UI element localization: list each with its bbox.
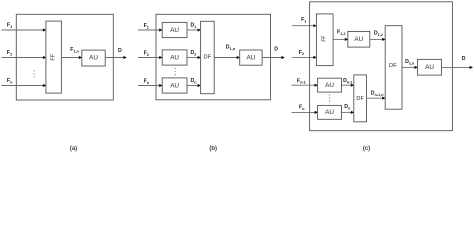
- svg-text:AU: AU: [354, 36, 363, 43]
- wire small DF to big DF (c): [367, 97, 386, 100]
- svg-text:(a): (a): [70, 146, 77, 152]
- analysis unit AU2 (b): [162, 50, 187, 65]
- svg-text:F2: F2: [144, 50, 149, 56]
- fusion analysis unit AU (b): [240, 50, 262, 65]
- svg-text:FF: FF: [51, 53, 57, 61]
- svg-text:D: D: [462, 56, 466, 62]
- final analysis unit AU (c): [418, 59, 442, 75]
- svg-text:AU: AU: [325, 82, 334, 89]
- wire input F2 into FF (a): [2, 56, 47, 59]
- analysis unit AU1 bottom (c): [318, 78, 342, 92]
- svg-text:D1,n: D1,n: [226, 45, 236, 51]
- feature fusion block FF (c): [316, 14, 333, 66]
- svg-text:F1: F1: [7, 23, 12, 29]
- outer system box (c): [310, 2, 453, 131]
- svg-text:D1,n: D1,n: [405, 59, 415, 65]
- svg-text:FF: FF: [322, 36, 328, 42]
- svg-text:Dn: Dn: [344, 104, 351, 110]
- decision fusion block big DF (c): [385, 26, 402, 110]
- svg-text:AU: AU: [170, 82, 179, 89]
- svg-text:Dn-1: Dn-1: [343, 78, 352, 84]
- svg-text:F1,2: F1,2: [337, 30, 345, 36]
- svg-text:F2: F2: [299, 50, 304, 56]
- wire input Fn into FF (a): [2, 84, 47, 87]
- wire input F2 into FF (c): [292, 56, 317, 59]
- wire AU top to big DF (c): [370, 38, 386, 41]
- analysis unit AU3 (b): [162, 78, 187, 93]
- vertical ellipsis between AU2 and AU3 (b): [175, 68, 176, 76]
- outer system box (a): [16, 14, 113, 100]
- svg-text:D2: D2: [191, 50, 197, 56]
- wire DF to AU (b): [214, 56, 240, 59]
- svg-text:AU: AU: [425, 64, 434, 71]
- analysis unit AU2 bottom (c): [318, 105, 342, 119]
- vertical ellipsis between bottom AUs (c): [329, 94, 330, 102]
- svg-text:D1: D1: [191, 23, 197, 29]
- analysis unit AU1 (b): [162, 22, 187, 37]
- svg-text:D: D: [118, 48, 122, 54]
- svg-text:F1,n: F1,n: [70, 47, 79, 53]
- svg-text:(b): (b): [209, 146, 217, 152]
- wire output D (b): [262, 56, 285, 59]
- svg-text:Dn: Dn: [191, 78, 198, 84]
- svg-text:AU: AU: [246, 55, 255, 62]
- svg-text:D: D: [274, 46, 278, 52]
- wire output D (c): [442, 66, 474, 69]
- analysis unit AU (a): [82, 50, 105, 66]
- decision fusion block small DF (c): [354, 75, 367, 122]
- wire input Fn into AU2 (c): [292, 111, 319, 114]
- svg-text:(c): (c): [363, 146, 370, 152]
- wire input Fn-1 into AU1 (c): [292, 84, 319, 87]
- svg-text:Fn: Fn: [7, 78, 13, 84]
- svg-text:Fn-1: Fn-1: [297, 78, 306, 84]
- svg-text:F1: F1: [301, 17, 306, 23]
- wire input F1 into FF (a): [2, 28, 47, 31]
- svg-text:AU: AU: [170, 27, 179, 34]
- analysis unit AU top (c): [348, 32, 370, 48]
- wire output D (a): [105, 56, 127, 59]
- wire input F1 into AU1 (b): [138, 28, 163, 31]
- wire FF to AU (a): [61, 56, 82, 59]
- wire AU3 to DF (b): [187, 84, 201, 87]
- wire big DF to AU (c): [402, 66, 418, 69]
- decision fusion block DF (b): [201, 21, 215, 93]
- vertical ellipsis between F2 and Fn (a): [34, 70, 35, 78]
- wire AU1 to DF (b): [187, 28, 201, 31]
- feature fusion block FF (a): [46, 21, 62, 93]
- wire input F2 into AU2 (b): [138, 56, 163, 59]
- svg-text:DF: DF: [356, 96, 364, 102]
- wire AU2 to small DF (c): [342, 111, 355, 114]
- wire input F1 into FF (c): [292, 24, 317, 27]
- svg-text:Fn: Fn: [144, 78, 150, 84]
- svg-text:F1: F1: [144, 23, 149, 29]
- svg-text:DF: DF: [204, 55, 212, 61]
- svg-text:AU: AU: [325, 109, 334, 116]
- wire input Fn into AU3 (b): [138, 84, 163, 87]
- wire AU2 to DF (b): [187, 56, 201, 59]
- svg-text:AU: AU: [89, 55, 98, 62]
- wire FF to AU top (c): [333, 38, 348, 41]
- svg-text:Dn-1,n: Dn-1,n: [371, 90, 385, 96]
- wire AU1 to small DF (c): [342, 84, 355, 87]
- svg-text:DF: DF: [389, 63, 397, 69]
- svg-text:Fn: Fn: [299, 104, 305, 110]
- outer system box (b): [156, 14, 271, 100]
- svg-text:D1,2: D1,2: [374, 30, 383, 36]
- svg-text:F2: F2: [7, 50, 12, 56]
- svg-text:AU: AU: [170, 54, 179, 61]
